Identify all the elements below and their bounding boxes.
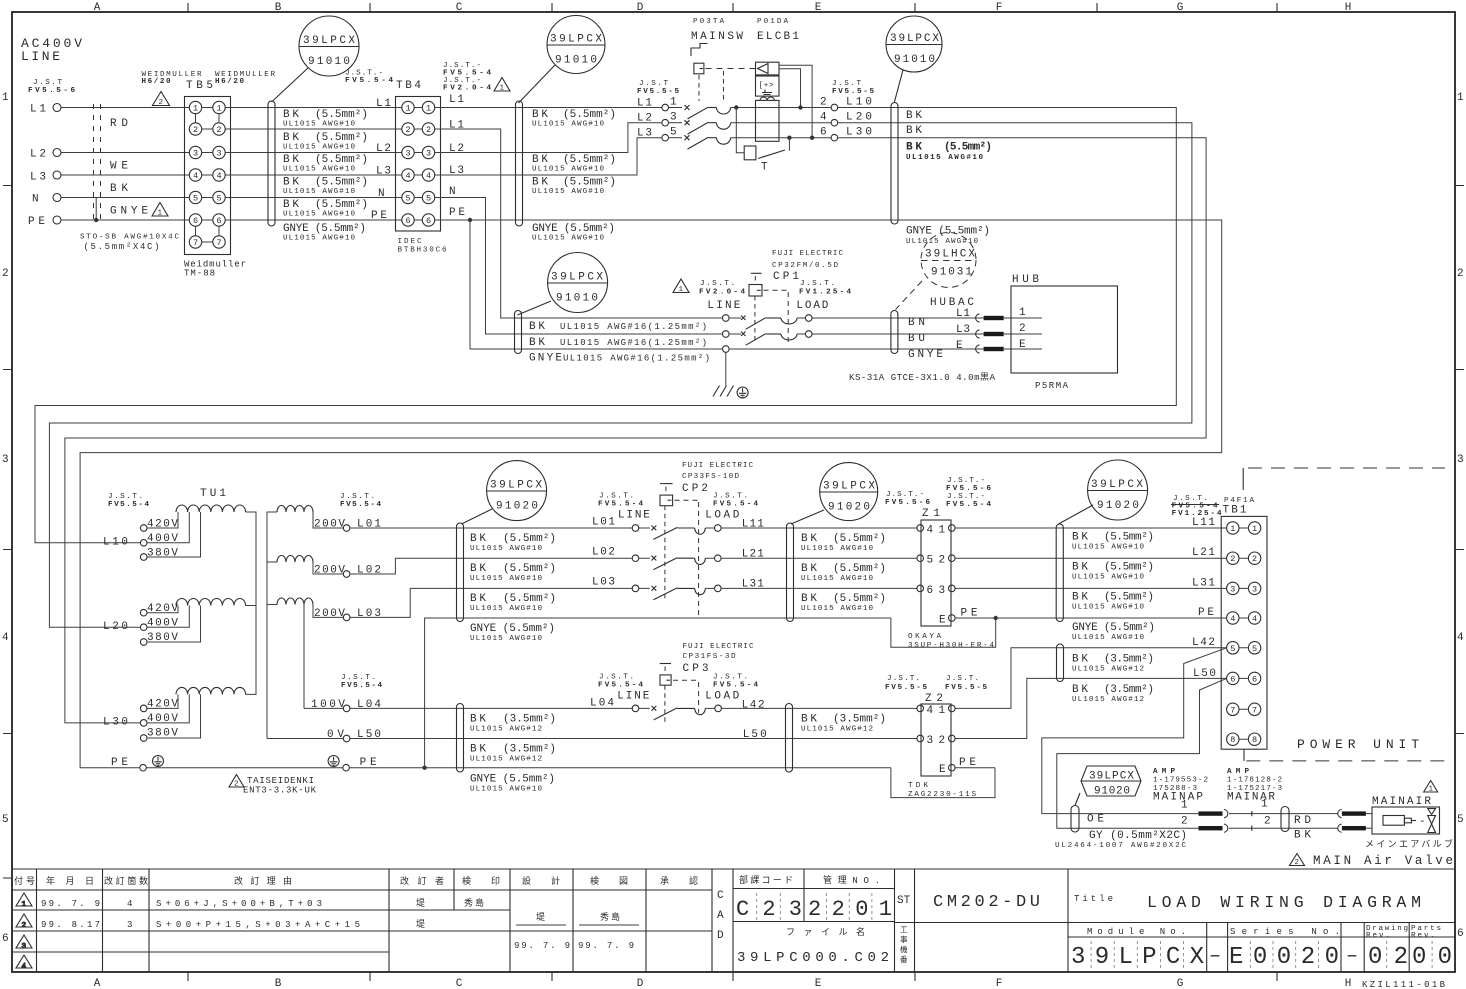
svg-text:J.S.T.-: J.S.T.- [947,493,985,501]
svg-text:UL1015 AWG#10: UL1015 AWG#10 [906,238,978,246]
svg-text:UL1015 AWG#12: UL1015 AWG#12 [1072,666,1144,674]
svg-text:2: 2 [1295,859,1300,867]
svg-text:6: 6 [1457,928,1464,940]
wire Z2 pin2 to TB1 pin6 (L50) [955,678,1227,738]
wire Z2 pin1 to TB1 pin5 (L42) [955,648,1227,709]
cable capsule after TB4 [516,101,523,226]
CP2 right wire labels [801,533,886,613]
balloon 39LPCX 91020 (CP2 load) [791,463,878,524]
wire N to TB5 [61,197,189,199]
svg-text:2: 2 [234,781,239,789]
svg-text:D: D [717,930,724,942]
wire L04 to CP3 [350,707,632,709]
warning triangle 2 above TB5 [153,92,170,106]
svg-text:1: 1 [939,525,946,537]
svg-text:(3.5mm²): (3.5mm²) [833,714,886,726]
TB1 box [1221,516,1267,749]
wire L3 to TB5 [61,174,189,176]
svg-text:(5.5mm²): (5.5mm²) [315,132,368,144]
svg-text:CP31FS-3D: CP31FS-3D [683,653,736,661]
svg-text:L42: L42 [1192,637,1215,649]
svg-text:ST: ST [897,895,911,907]
svg-text:L1: L1 [449,120,464,132]
wire PE branch down to CP1 gnye [470,220,723,349]
svg-text:J.S.T.: J.S.T. [800,280,835,288]
svg-text:1: 1 [1429,786,1434,794]
svg-text:1: 1 [158,210,163,218]
balloon 39LPCX 91010 (TB4) [519,16,606,104]
svg-text:E: E [939,764,946,776]
svg-text:4: 4 [1252,614,1257,624]
svg-text:ENT3-3.3K-UK: ENT3-3.3K-UK [243,786,317,796]
svg-text:G: G [1177,978,1184,989]
ground drop [725,352,727,385]
svg-text:2: 2 [1264,816,1271,828]
svg-text:GNYE (5.5mm²): GNYE (5.5mm²) [470,774,555,786]
svg-text:J.S.T.-: J.S.T.- [886,491,924,499]
wire L1 to TB5 [61,107,189,109]
svg-text:L03: L03 [357,608,381,620]
svg-text:7: 7 [1230,705,1235,715]
wire TB4 L1(2) down to CP1 [435,129,723,318]
svg-text:1: 1 [193,104,198,114]
svg-text:BTBH30C6: BTBH30C6 [398,247,447,255]
svg-text:A: A [94,2,101,14]
svg-text:4: 4 [216,171,221,181]
svg-text:L11: L11 [1192,517,1215,529]
svg-text:L04: L04 [590,698,614,710]
svg-text:1: 1 [1252,524,1257,534]
svg-text:1: 1 [1019,307,1026,319]
MAINAIR valve box [1372,807,1440,834]
svg-text:工: 工 [900,926,908,935]
wire L03 to CP2 [350,588,632,617]
cable capsule CP1 line side [515,311,522,354]
balloon 39LPCX 91010 (ELCB) [886,16,942,102]
svg-text:5: 5 [2,814,9,826]
svg-text:UL1015 AWG#10: UL1015 AWG#10 [283,211,355,219]
svg-text:5: 5 [426,194,431,204]
svg-text:E: E [939,615,946,627]
frame column ticks top [188,3,1277,12]
balloon 39LPCX 91010 (TB5) [272,16,360,102]
HUBAC connector row1 [976,314,980,322]
cable capsule CP3 load [786,704,793,773]
svg-text:UL1015 AWG#10: UL1015 AWG#10 [801,605,873,613]
svg-text:(3.5mm²): (3.5mm²) [1104,654,1154,666]
svg-text:6: 6 [2,933,9,945]
svg-text:91020: 91020 [1094,786,1130,798]
svg-text:3: 3 [1457,454,1464,466]
title block right: code boxes [733,869,1455,972]
GNYE riser wire [425,618,891,768]
junction Z1 E [994,616,998,620]
svg-text:L11: L11 [742,519,764,531]
svg-text:4: 4 [820,112,827,124]
svg-text:4: 4 [127,899,132,909]
svg-text:UL1015 AWG#16(1.25mm²): UL1015 AWG#16(1.25mm²) [560,338,707,348]
svg-text:L03: L03 [592,577,615,589]
svg-text:(5.5mm²): (5.5mm²) [1104,532,1154,544]
svg-text:3: 3 [216,149,221,159]
svg-text:4: 4 [927,525,934,537]
svg-text:L2: L2 [637,113,652,125]
svg-text:2: 2 [216,125,221,135]
svg-text:UL1015 AWG#16(1.25mm²): UL1015 AWG#16(1.25mm²) [563,354,710,364]
dashed drive verticals [698,75,700,101]
Z1 terminal E [949,615,956,622]
svg-text:L42: L42 [742,700,765,712]
revision marker triangles [16,893,32,971]
svg-text:3: 3 [1230,584,1235,594]
revision row 1 [41,897,484,909]
MAINAP connector row2 [1199,826,1223,830]
svg-text:4: 4 [927,705,934,717]
cable capsule CP3 line [457,704,464,773]
svg-text:91010: 91010 [894,54,935,66]
svg-text:(5.5mm²): (5.5mm²) [315,154,368,166]
Z2 E detour wire [891,768,995,798]
svg-text:1: 1 [2,92,9,104]
svg-text:3: 3 [670,112,677,124]
svg-text:J.S.T.: J.S.T. [108,493,143,501]
svg-text:FUJI ELECTRIC: FUJI ELECTRIC [683,643,754,651]
svg-text:UL1015 AWG#10: UL1015 AWG#10 [283,121,355,129]
svg-text:E: E [815,978,822,989]
svg-text:堤: 堤 [416,919,425,930]
svg-text:6: 6 [927,585,934,597]
svg-text:L10: L10 [846,97,872,109]
svg-text:AMP: AMP [1227,768,1249,776]
svg-text:UL1015 AWG#10: UL1015 AWG#10 [801,545,873,553]
svg-text:UL1015 AWG#10: UL1015 AWG#10 [532,166,604,174]
balloon 39LPCX 91010 (CP1) [518,253,608,316]
svg-text:J.S.T.: J.S.T. [599,493,634,501]
svg-text:420V: 420V [147,519,178,531]
CP1 pole 2 [723,331,730,338]
svg-text:7: 7 [216,238,221,248]
svg-text:CP3: CP3 [683,663,709,675]
svg-text:J.S.T.-: J.S.T.- [947,477,985,485]
node labels before TB4 [371,98,391,222]
ELCB amp box [756,76,780,96]
svg-text:6: 6 [405,216,410,226]
svg-text:5: 5 [1230,644,1235,654]
svg-text:Rev.: Rev. [1366,932,1390,940]
design/check signatures [514,911,639,951]
svg-text:TU1: TU1 [200,488,226,500]
Z1 E detour wire [891,618,996,647]
svg-text:IDEC: IDEC [398,238,422,246]
grid letters bottom [94,978,1352,989]
Z2 terminals row 4-1 [917,705,924,712]
svg-text:J.S.T.: J.S.T. [887,675,920,683]
svg-text:4: 4 [22,963,27,971]
svg-text:UL1015 AWG#10: UL1015 AWG#10 [283,144,355,152]
warning triangle right of TB4 [494,78,510,92]
svg-text:L50: L50 [743,729,767,741]
svg-text:6: 6 [216,216,221,226]
Z2 terminal E [949,764,956,771]
output 200V L03 [313,605,343,618]
svg-text:GNYE (5.5mm²): GNYE (5.5mm²) [283,223,366,235]
svg-text:–: – [1346,945,1358,968]
HUB box [1011,286,1118,373]
grid letters top [94,2,1352,14]
svg-text:L21: L21 [1192,547,1215,559]
svg-text:2: 2 [820,97,827,109]
grid numbers left [2,92,9,945]
svg-text:L1: L1 [376,98,391,110]
svg-text:LINE: LINE [617,691,649,703]
Z1 terminals row 4-1 [917,525,924,532]
svg-text:91020: 91020 [1097,500,1139,512]
MAINAP connector row1 [1199,811,1223,815]
svg-text:(5.5mm²X4C): (5.5mm²X4C) [84,242,160,252]
svg-text:1: 1 [500,85,505,93]
POWER UNIT boundary dashed top [1242,468,1244,490]
MAINAR connector row2 [1338,824,1342,832]
svg-text:FV1.25-4: FV1.25-4 [799,289,851,297]
svg-text:5: 5 [670,127,677,139]
svg-text:LINE: LINE [707,300,740,312]
svg-text:(5.5mm²): (5.5mm²) [1104,562,1154,574]
svg-text:91031: 91031 [931,267,972,279]
svg-text:(5.5mm²): (5.5mm²) [563,154,616,166]
HUBAC connector row2 [976,330,980,338]
cable capsule before TB1 [1056,524,1063,622]
svg-text:TAISEIDENKI: TAISEIDENKI [247,776,314,786]
CP1 pole 1 [723,315,730,322]
svg-text:1: 1 [1261,799,1268,811]
svg-text:(5.5mm²): (5.5mm²) [503,533,556,545]
svg-text:1: 1 [426,104,431,114]
svg-text:2: 2 [1181,816,1188,828]
svg-text:91010: 91010 [556,293,598,305]
feedback line lower to pole1 [779,69,801,108]
svg-text:-: - [1419,816,1426,828]
svg-text:8: 8 [1230,735,1235,745]
Z1 box [921,520,951,626]
svg-text:J.S.T: J.S.T [832,80,861,88]
CP1 gnye pass-through [723,346,730,353]
svg-text:UL1015 AWG#12: UL1015 AWG#12 [1072,696,1144,704]
svg-text:J.S.T.: J.S.T. [946,675,979,683]
wire L2 to TB5 [61,152,189,154]
PE wire across transformer [146,767,342,769]
trip test switch blade [758,150,785,159]
svg-text:L3: L3 [956,324,970,336]
revision row 2 [41,919,425,930]
svg-text:2: 2 [193,125,198,135]
svg-text:3: 3 [127,920,132,930]
svg-text:3: 3 [193,149,198,159]
TAISEIDENKI label [229,775,244,788]
secondary winding 3 [277,598,313,605]
svg-text:ZAG2230-11S: ZAG2230-11S [908,791,976,799]
svg-text:TB4: TB4 [396,80,421,92]
secondary winding 2 [277,556,313,563]
svg-text:(5.5mm²): (5.5mm²) [563,177,616,189]
secondary left bus [267,512,277,739]
svg-text:3: 3 [426,149,431,159]
MAIN Air Valve note [1290,854,1305,866]
svg-text:(5.5mm²): (5.5mm²) [563,109,616,121]
svg-text:1: 1 [1230,524,1235,534]
svg-text:2: 2 [2,268,9,280]
secondary winding 1 [277,506,313,512]
svg-text:J.S.T: J.S.T [33,79,62,87]
Z2 terminals row 3-2 [917,735,924,742]
svg-text:2: 2 [159,99,164,107]
primary winding 3 [176,687,246,694]
svg-text:HUB: HUB [1012,274,1039,286]
svg-text:1: 1 [679,286,684,294]
svg-text:秀島: 秀島 [600,911,620,923]
svg-text:H: H [1345,2,1352,14]
svg-text:5: 5 [927,555,934,567]
svg-text:H6/20: H6/20 [142,78,171,86]
CP2 left wire labels [470,533,556,643]
svg-text:H6/20: H6/20 [215,78,244,86]
svg-text:91010: 91010 [308,56,350,68]
svg-text:(5.5mm²): (5.5mm²) [1104,592,1154,604]
svg-text:TB1: TB1 [1223,505,1247,517]
cable bundle dashed marks [93,104,95,221]
svg-text:UL1015 AWG#10: UL1015 AWG#10 [470,575,542,583]
svg-text:8: 8 [1252,735,1257,745]
svg-text:3: 3 [22,943,27,951]
ELCB trip coil box [744,146,756,160]
svg-text:C: C [717,890,724,902]
node labels after TB4 [449,94,465,219]
svg-text:GNYE (5.5mm²): GNYE (5.5mm²) [470,623,555,635]
svg-text:STO-SB AWG#10X4C: STO-SB AWG#10X4C [80,234,179,242]
N-PE bridge wire [95,198,97,221]
svg-text:1: 1 [1181,800,1188,812]
output 200V L01 [313,512,343,528]
svg-text:5: 5 [1252,644,1257,654]
svg-text:CP1: CP1 [773,271,799,283]
svg-text:91020: 91020 [496,501,538,513]
svg-text:UL1015 AWG#10: UL1015 AWG#10 [283,188,355,196]
svg-text:L2: L2 [376,143,391,155]
Z1 terminals row 6-3 [917,585,924,592]
cable capsule CP2 line [457,523,464,622]
svg-text:ELCB1: ELCB1 [757,31,799,43]
svg-text:4: 4 [1457,632,1464,644]
svg-text:200V: 200V [314,608,345,620]
svg-text:(3.5mm²): (3.5mm²) [503,744,556,756]
svg-text:LINE: LINE [618,510,650,522]
svg-text:FUJI ELECTRIC: FUJI ELECTRIC [772,250,843,258]
svg-text:J.S.T.: J.S.T. [713,493,748,501]
svg-text:3: 3 [1252,584,1257,594]
svg-text:E: E [1019,339,1026,351]
svg-text:Rev.: Rev. [1411,932,1435,940]
PE wire to Z2 [349,767,891,769]
svg-text:改訂者: 改訂者 [400,875,444,887]
cable capsule OE pair [1071,806,1079,833]
svg-text:L01: L01 [357,519,381,531]
revision table headers [14,875,698,887]
svg-text:4: 4 [1230,614,1235,624]
Parts Rev. header [1411,925,1441,940]
svg-text:(5.5mm²): (5.5mm²) [315,177,368,189]
svg-text:FUJI ELECTRIC: FUJI ELECTRIC [682,462,753,470]
TB5 row links and jumpers [196,108,220,243]
solenoid symbol [1383,816,1404,826]
svg-text:GNYE: GNYE [529,353,562,365]
svg-text:F: F [996,978,1003,989]
wire TB4 N down to CP1 [435,198,723,335]
linkage dash-dot to ELCB [706,68,756,70]
svg-text:F: F [996,2,1003,14]
CP1 actuator [751,272,762,274]
svg-text:J.S.T.: J.S.T. [340,493,375,501]
svg-text:(5.5mm²): (5.5mm²) [503,593,556,605]
MAINSW handle [691,44,708,57]
frame row ticks left [3,186,12,879]
svg-text:UL1015 AWG#10: UL1015 AWG#10 [906,154,983,162]
frame row ticks right [1455,186,1464,734]
svg-text:C: C [456,2,463,14]
svg-text:UL1015 AWG#10: UL1015 AWG#10 [1072,604,1144,612]
svg-text:4: 4 [426,171,431,181]
warning triangle 1 [152,203,168,217]
TB1 side wire labels [1072,532,1155,643]
grid numbers right [1457,92,1464,940]
svg-text:39LPCX: 39LPCX [1089,771,1134,783]
digit cell separators [757,893,1432,971]
wire TB4 L3 to MAINSW [435,138,662,175]
svg-text:(5.5mm²): (5.5mm²) [833,533,886,545]
svg-text:2: 2 [1457,268,1464,280]
svg-text:UL1015 AWG#10: UL1015 AWG#10 [470,545,542,553]
Z1 output wires to TB1 [955,527,1227,529]
svg-text:UL1015 AWG#16(1.25mm²): UL1015 AWG#16(1.25mm²) [560,322,707,332]
svg-text:L02: L02 [357,565,381,577]
svg-text:UL1015 AWG#10: UL1015 AWG#10 [1072,544,1144,552]
svg-text:L50: L50 [357,729,381,741]
svg-text:部課コード: 部課コード [739,874,793,886]
svg-text:L04: L04 [357,699,381,711]
svg-text:1: 1 [939,705,946,717]
svg-text:2: 2 [939,735,946,747]
工事機番 vertical [900,926,908,965]
svg-text:UL1015 AWG#10: UL1015 AWG#10 [1072,634,1144,642]
svg-text:L02: L02 [592,547,615,559]
svg-text:380V: 380V [147,548,178,560]
svg-text:7: 7 [1252,705,1257,715]
svg-text:(5.5mm²): (5.5mm²) [315,199,368,211]
svg-text:5: 5 [1457,814,1464,826]
svg-text:1: 1 [22,901,27,909]
wires TB5 to TB4 [225,108,402,221]
svg-text:UL1015 AWG#10: UL1015 AWG#10 [470,635,542,643]
svg-text:B: B [275,2,282,14]
svg-text:2: 2 [426,125,431,135]
svg-text:C: C [456,978,463,989]
svg-text:L20: L20 [846,112,872,124]
junction PE branch [468,218,472,222]
wire L01 to CP2 [350,527,632,529]
svg-text:1-178128-2: 1-178128-2 [1227,777,1282,785]
output 0V L50 [267,738,343,740]
svg-text:2: 2 [1230,554,1235,564]
wire MAINAP to MAINAR 1 [1229,813,1338,815]
warning triangle MAINAIR [1424,781,1438,793]
